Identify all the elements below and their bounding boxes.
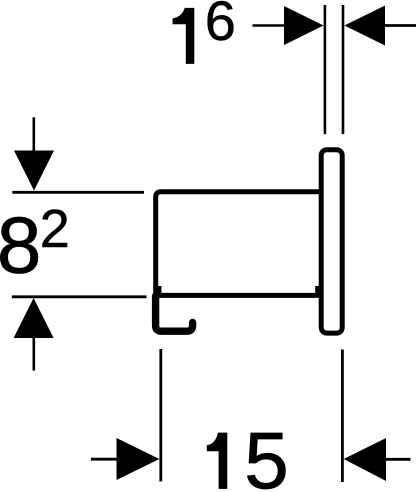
svg-text:8: 8 — [0, 201, 41, 290]
dimension 1.6: left arrowhead — [284, 6, 324, 45]
dimension 8.2: down arrowhead — [14, 151, 54, 191]
dimension 1.6: left extension line — [324, 5, 327, 134]
dimension 1.6: right extension line — [342, 5, 345, 134]
svg-text:2: 2 — [40, 199, 70, 259]
dimension 8.2: bottom leader line — [32, 336, 35, 371]
profile body: right rib stub — [315, 286, 319, 295]
dimension 1.6: right leader line — [382, 24, 416, 27]
dimension 15: left arrowhead — [117, 438, 160, 480]
dimension 15: left leader line — [91, 458, 119, 461]
profile hook — [156, 296, 193, 331]
dimension 1.6: right arrowhead — [344, 6, 385, 46]
profile body: top wall — [156, 192, 322, 299]
dimension 15: right extension line — [341, 350, 344, 483]
svg-text:5: 5 — [244, 416, 289, 492]
dimension 15: value digit 1 — [207, 433, 227, 489]
dimension 8.2: bottom extension line — [12, 295, 147, 298]
profile body: left rib stub — [158, 286, 162, 295]
svg-text:6: 6 — [205, 0, 236, 52]
profile body: bottom wall — [157, 293, 322, 298]
dimension 8.2: top leader line — [32, 117, 35, 154]
dimension 1.6: value digit 1 — [173, 8, 194, 63]
dimension 15: right arrowhead — [344, 438, 386, 481]
dimension 8.2: top extension line — [12, 191, 144, 194]
dimension 8.2: up arrowhead — [14, 298, 54, 338]
dimension 15: right leader line — [384, 458, 411, 461]
dimension 1.6: left leader line — [253, 24, 289, 27]
dimension 15: left extension line — [159, 349, 162, 482]
flange plate — [321, 150, 342, 333]
